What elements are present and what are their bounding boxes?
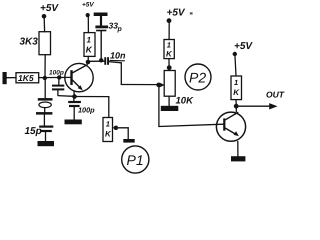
svg-text:1: 1 <box>87 36 92 45</box>
svg-text:10K: 10K <box>176 96 195 107</box>
svg-text:p: p <box>117 26 123 33</box>
svg-text:1: 1 <box>167 41 171 50</box>
svg-text:1K5: 1K5 <box>18 73 34 83</box>
svg-text:P2: P2 <box>189 70 206 86</box>
svg-text:100p: 100p <box>78 106 95 115</box>
svg-text:+5V: +5V <box>82 2 94 9</box>
svg-text:+5V: +5V <box>40 3 59 14</box>
svg-text:K: K <box>86 45 93 55</box>
svg-text:100p: 100p <box>49 69 64 76</box>
svg-text:+5V: +5V <box>234 41 253 52</box>
svg-text:3K3: 3K3 <box>20 37 39 48</box>
svg-text:OUT: OUT <box>266 90 285 100</box>
svg-text:+5V: +5V <box>167 8 186 19</box>
svg-text:10n: 10n <box>110 51 126 61</box>
svg-text:15p: 15p <box>25 126 42 137</box>
svg-text:P1: P1 <box>127 152 144 168</box>
svg-text:1: 1 <box>106 119 110 128</box>
svg-text:1: 1 <box>234 78 238 87</box>
